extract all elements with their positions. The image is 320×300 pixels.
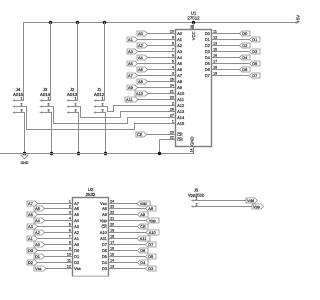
net label A11 (125, 97, 138, 102)
svg-text:A11: A11 (177, 97, 185, 102)
wire J3 pin3 to GND rail (50, 112, 52, 114)
svg-text:GND: GND (21, 161, 29, 165)
net label D4 (240, 55, 251, 60)
svg-text:A2: A2 (138, 43, 143, 48)
net label A6 (137, 67, 148, 72)
junction on GND rail at J3 pin3 (50, 152, 53, 155)
wire A6 to U2 pin 2 (45, 208, 73, 210)
net label D0 (240, 31, 251, 36)
svg-text:19: 19 (110, 228, 114, 232)
svg-text:A9: A9 (140, 212, 145, 217)
net label A8 (146, 206, 157, 211)
net label A8 (137, 79, 148, 84)
svg-text:18: 18 (213, 65, 217, 69)
wire U1 to net label D1 (212, 39, 250, 41)
net label A5 (127, 61, 138, 66)
wire A2 to U1 pin (148, 45, 176, 47)
net label A0 (137, 31, 148, 36)
net label A3 (127, 49, 138, 54)
wire A2 to U2 pin 6 (45, 232, 73, 234)
net label Vpp (146, 218, 159, 223)
wire U1 to net label D3 (212, 51, 250, 53)
wire U1 to net label D5 (212, 63, 250, 65)
net label A1 (27, 236, 38, 241)
svg-text:19: 19 (213, 71, 217, 75)
svg-text:A6: A6 (74, 206, 80, 211)
svg-text:D4: D4 (102, 260, 108, 265)
svg-text:Vpp: Vpp (100, 218, 108, 223)
svg-text:11: 11 (213, 29, 217, 33)
net label A10 (135, 91, 148, 96)
svg-text:D3: D3 (205, 49, 211, 54)
svg-text:A9: A9 (177, 85, 183, 90)
svg-text:2: 2 (75, 102, 77, 106)
wire Vss to U2 pin 12 (46, 268, 73, 270)
svg-text:A11: A11 (100, 236, 108, 241)
svg-text:D7: D7 (102, 242, 108, 247)
net label D5 (250, 61, 261, 66)
wire J4 pin2 to U1 A15 (23, 106, 27, 108)
svg-text:A8: A8 (138, 79, 143, 84)
wire U2 to net label D7 (109, 244, 147, 246)
svg-text:A0: A0 (177, 31, 183, 36)
wire J2 pin3 to GND rail (77, 112, 79, 114)
svg-text:A10: A10 (136, 91, 144, 96)
wire J2 pin2 to U1 A13 (77, 106, 81, 108)
svg-text:25: 25 (170, 77, 174, 81)
svg-text:4: 4 (69, 216, 71, 220)
svg-text:27: 27 (170, 113, 174, 117)
svg-text:A3: A3 (177, 49, 183, 54)
wire A4 to U1 pin (148, 57, 176, 59)
wire U2 to net label A11 (109, 238, 138, 240)
svg-text:A1: A1 (28, 236, 33, 241)
svg-text:9: 9 (69, 246, 71, 250)
svg-text:3: 3 (172, 71, 174, 75)
svg-text:D1: D1 (252, 37, 257, 42)
svg-text:A10: A10 (177, 91, 185, 96)
net label Vdd (J5) (246, 198, 258, 203)
svg-text:A1: A1 (128, 37, 133, 42)
svg-text:1: 1 (102, 96, 104, 100)
svg-text:D0: D0 (74, 248, 80, 253)
net label A5 (27, 212, 38, 217)
wire J1 pin2 to U1 A12 (104, 106, 108, 108)
net label A1 (127, 37, 138, 42)
svg-text:16: 16 (213, 53, 217, 57)
wire U2 to net label A10 (109, 232, 147, 234)
svg-text:3: 3 (21, 108, 23, 112)
svg-text:A9: A9 (128, 85, 133, 90)
svg-text:A0: A0 (35, 242, 41, 247)
svg-text:5: 5 (172, 59, 174, 63)
net label Vss (34, 266, 46, 271)
svg-text:A8: A8 (177, 79, 183, 84)
svg-text:13: 13 (110, 264, 114, 268)
wire U2 to net label D4 (109, 262, 138, 264)
svg-text:A8: A8 (148, 206, 153, 211)
wire A9 to U1 pin (138, 87, 176, 89)
net label D5 (146, 254, 157, 259)
svg-text:28: 28 (190, 25, 194, 29)
wire J4 pin3 to GND rail (23, 112, 25, 114)
svg-text:A15: A15 (177, 121, 185, 126)
wire A0 to U1 pin (148, 33, 176, 35)
svg-text:Vdd: Vdd (247, 198, 254, 203)
svg-text:A4: A4 (74, 218, 80, 223)
svg-text:D2: D2 (242, 43, 247, 48)
wire A8 to U1 pin (148, 81, 176, 83)
wire A5 to U1 pin (138, 63, 176, 65)
U1 pin 28 VCC stub (193, 23, 195, 30)
svg-text:5: 5 (69, 222, 71, 226)
wire U2 to net label D3 (109, 268, 147, 270)
svg-text:D3: D3 (148, 266, 153, 271)
wire OE to GND rail (159, 139, 176, 141)
svg-text:13: 13 (213, 41, 217, 45)
wire D2 to U2 pin 11 (38, 262, 73, 264)
svg-text:A5: A5 (128, 61, 133, 66)
junction on +5V rail at J2 pin1 (76, 21, 79, 24)
svg-text:D3: D3 (252, 49, 257, 54)
svg-text:2: 2 (172, 101, 174, 105)
svg-text:23: 23 (170, 95, 174, 99)
svg-text:D0: D0 (205, 31, 211, 36)
svg-text:3: 3 (102, 108, 104, 112)
net label D2 (27, 260, 38, 265)
net label CE (138, 224, 149, 229)
svg-text:A2: A2 (74, 230, 80, 235)
net label D3 (146, 266, 157, 271)
svg-text:A4: A4 (138, 55, 144, 60)
svg-text:A0: A0 (138, 31, 144, 36)
wire A5 to U2 pin 3 (38, 214, 73, 216)
svg-text:2: 2 (48, 102, 50, 106)
svg-text:D4: D4 (205, 55, 211, 60)
svg-text:20: 20 (170, 130, 174, 134)
svg-text:17: 17 (110, 240, 114, 244)
svg-text:3: 3 (75, 108, 77, 112)
svg-text:7: 7 (69, 234, 71, 238)
+5V power rail wire (23, 22, 298, 24)
wire U2 to net label D5 (109, 256, 147, 258)
svg-text:14: 14 (110, 258, 114, 262)
wire D0 to U2 pin 9 (38, 250, 73, 252)
svg-text:3: 3 (48, 108, 50, 112)
wire A11 to U1 pin (138, 99, 176, 101)
wire CE to U1 pin 20 (147, 134, 176, 136)
junction on GND rail at J2 pin3 (77, 152, 80, 155)
svg-text:A10: A10 (149, 230, 157, 235)
svg-text:GND: GND (190, 136, 195, 145)
wire A1 to U2 pin 7 (38, 238, 73, 240)
svg-text:A6: A6 (177, 67, 183, 72)
svg-text:A10: A10 (100, 230, 108, 235)
junction on GND rail at J1 pin3 (104, 152, 107, 155)
svg-text:D0: D0 (242, 31, 248, 36)
svg-text:A7: A7 (128, 73, 133, 78)
svg-text:16: 16 (110, 246, 114, 250)
wire A1 to U1 pin (138, 39, 176, 41)
svg-text:D7: D7 (252, 73, 257, 78)
svg-text:Vss: Vss (35, 266, 42, 271)
svg-text:6: 6 (69, 228, 71, 232)
svg-text:17: 17 (213, 59, 217, 63)
wire U1 to net label D0 (212, 33, 240, 35)
net label A4 (137, 55, 148, 60)
svg-text:Vss: Vss (74, 266, 81, 271)
svg-text:15: 15 (213, 47, 217, 51)
svg-text:A3: A3 (28, 224, 33, 229)
wire U2 to net label Vdd (109, 203, 138, 205)
junction on GND rail at J4 pin3 (23, 152, 26, 155)
svg-text:A7: A7 (28, 201, 33, 206)
svg-text:D5: D5 (102, 254, 108, 259)
svg-text:D2: D2 (74, 260, 80, 265)
wire U1 to net label D6 (212, 69, 240, 71)
svg-text:A3: A3 (128, 49, 133, 54)
svg-text:8: 8 (69, 240, 71, 244)
svg-text:A6: A6 (35, 206, 40, 211)
svg-text:D1: D1 (35, 254, 40, 259)
svg-text:D6: D6 (140, 248, 145, 253)
svg-text:18: 18 (110, 234, 114, 238)
net label A2 (34, 230, 45, 235)
svg-text:15: 15 (110, 252, 114, 256)
svg-text:2: 2 (21, 102, 23, 106)
EPROM U1 body (176, 30, 212, 147)
svg-text:1: 1 (21, 96, 23, 100)
svg-text:7: 7 (172, 47, 174, 51)
svg-text:8: 8 (172, 41, 174, 45)
wire U1 to net label D4 (212, 57, 240, 59)
svg-text:Vpp: Vpp (253, 204, 260, 209)
svg-text:D6: D6 (205, 67, 211, 72)
net label D1 (34, 254, 45, 259)
svg-text:D4: D4 (140, 260, 146, 265)
svg-text:22: 22 (170, 135, 174, 139)
wire A10 to U1 pin (148, 93, 176, 95)
svg-text:A2: A2 (35, 230, 40, 235)
net label A11 (137, 236, 150, 241)
svg-text:A12: A12 (177, 103, 185, 108)
svg-text:12: 12 (213, 35, 217, 39)
net label A6 (34, 206, 45, 211)
net label D6 (138, 248, 149, 253)
svg-text:3: 3 (69, 210, 71, 214)
svg-text:D5: D5 (148, 254, 153, 259)
wire J2 pin1 to +5V rail (77, 22, 79, 101)
wire U2 to net label A9 (109, 214, 138, 216)
net label CE (136, 132, 147, 137)
svg-text:2: 2 (69, 204, 71, 208)
svg-text:21: 21 (170, 89, 174, 93)
svg-text:J1: J1 (97, 87, 102, 92)
svg-text:10: 10 (170, 29, 174, 33)
wire A3 to U1 pin (138, 51, 176, 53)
wire U2 to net label CE (109, 226, 138, 228)
net label A9 (138, 212, 149, 217)
svg-text:D0: D0 (28, 248, 34, 253)
svg-text:D7: D7 (205, 73, 211, 78)
svg-text:1: 1 (75, 96, 77, 100)
svg-text:1: 1 (69, 199, 71, 203)
svg-text:A7: A7 (177, 73, 183, 78)
U1 pin 14 GND stub (193, 147, 195, 155)
svg-text:A11: A11 (140, 236, 147, 241)
svg-text:CE: CE (101, 224, 107, 229)
svg-text:1: 1 (48, 96, 50, 100)
wire A0 to U2 pin 8 (45, 244, 73, 246)
svg-text:A5: A5 (28, 212, 33, 217)
svg-text:A11: A11 (126, 97, 133, 102)
net label D6 (240, 67, 251, 72)
net label A7 (27, 201, 38, 206)
svg-text:22: 22 (110, 210, 114, 214)
ground symbol GND (21, 155, 28, 159)
svg-text:24: 24 (170, 83, 174, 87)
wire A6 to U1 pin (148, 69, 176, 71)
wire J1 pin1 to +5V rail (104, 22, 106, 101)
net label A9 (127, 85, 138, 90)
svg-text:A9: A9 (102, 212, 108, 217)
svg-text:D2: D2 (205, 43, 211, 48)
svg-text:14: 14 (190, 149, 194, 153)
junction on +5V rail at U1 VCC (192, 21, 195, 24)
svg-text:OE: OE (177, 137, 183, 142)
svg-text:24: 24 (110, 199, 114, 203)
wire A4 to U2 pin 4 (45, 220, 73, 222)
svg-text:11: 11 (67, 258, 71, 262)
svg-text:D6: D6 (242, 67, 247, 72)
svg-text:D6: D6 (102, 248, 108, 253)
svg-text:26: 26 (170, 107, 174, 111)
wire J5 pin2 to net label Vpp (199, 206, 253, 208)
svg-text:6: 6 (172, 53, 174, 57)
svg-text:9: 9 (172, 35, 174, 39)
wire J4 pin1 to +5V rail (23, 22, 25, 101)
svg-text:A0: A0 (74, 242, 80, 247)
svg-text:20: 20 (110, 222, 114, 226)
svg-text:A14: A14 (177, 115, 185, 120)
junction on +5V rail at J3 pin1 (49, 21, 52, 24)
svg-text:A1: A1 (74, 236, 80, 241)
wire U1 to net label D7 (212, 75, 250, 77)
svg-text:D5: D5 (205, 61, 211, 66)
wire J3 pin2 to U1 A14 (50, 106, 54, 108)
wire U2 to net label Vpp (109, 220, 147, 222)
svg-text:D5: D5 (252, 61, 257, 66)
svg-text:J2: J2 (70, 87, 75, 92)
wire U2 to net label D6 (109, 250, 138, 252)
net label A10 (146, 230, 159, 235)
wire A3 to U2 pin 5 (38, 226, 73, 228)
net label Vdd (137, 201, 150, 206)
wire U1 to net label D2 (212, 45, 240, 47)
svg-text:27512: 27512 (187, 15, 200, 20)
net label D4 (138, 260, 149, 265)
svg-text:Vpp: Vpp (149, 218, 156, 223)
svg-text:A2: A2 (177, 43, 183, 48)
svg-text:A1: A1 (177, 37, 183, 42)
svg-text:A3: A3 (74, 224, 80, 229)
svg-text:1: 1 (172, 119, 174, 123)
GND rail wire (0, 153, 194, 155)
svg-text:10: 10 (67, 252, 71, 256)
svg-text:J3: J3 (43, 87, 48, 92)
svg-text:4: 4 (172, 65, 174, 69)
svg-text:D2: D2 (28, 260, 33, 265)
wire J5 pin1 to net label Vdd (199, 200, 247, 202)
svg-text:Vdd: Vdd (140, 201, 147, 206)
net label A4 (34, 218, 45, 223)
junction on GND rail at OE wire (158, 152, 161, 155)
wire D1 to U2 pin 10 (45, 256, 73, 258)
net label D2 (240, 43, 251, 48)
svg-text:D3: D3 (102, 266, 108, 271)
net label D1 (250, 37, 261, 42)
net label A0 (34, 242, 45, 247)
svg-text:D1: D1 (74, 254, 80, 259)
net label D3 (250, 49, 261, 54)
svg-text:A13: A13 (177, 109, 185, 114)
svg-text:A5: A5 (74, 212, 80, 217)
svg-text:A8: A8 (102, 206, 108, 211)
svg-text:D7: D7 (148, 242, 153, 247)
svg-text:A5: A5 (177, 61, 183, 66)
svg-text:1: 1 (196, 196, 198, 200)
net label D0 (27, 248, 38, 253)
svg-text:21: 21 (110, 216, 114, 220)
svg-text:D1: D1 (205, 37, 211, 42)
net label Vpp (J5) (252, 204, 264, 209)
svg-text:A6: A6 (138, 67, 143, 72)
svg-text:23: 23 (110, 204, 114, 208)
svg-text:2532: 2532 (86, 192, 96, 197)
svg-text:J4: J4 (16, 87, 21, 92)
wire U2 to net label A8 (109, 208, 147, 210)
junction on +5V rail at J1 pin1 (103, 21, 106, 24)
net label A7 (127, 73, 138, 78)
net label D7 (146, 242, 157, 247)
wire J3 pin1 to +5V rail (50, 22, 52, 101)
svg-text:2: 2 (196, 202, 198, 206)
svg-text:2: 2 (102, 102, 104, 106)
svg-text:A4: A4 (35, 218, 41, 223)
svg-text:A4: A4 (177, 55, 183, 60)
svg-text:12: 12 (67, 264, 71, 268)
net label D7 (250, 73, 261, 78)
svg-text:VCC: VCC (191, 31, 196, 40)
EPROM U2 body (73, 198, 109, 277)
svg-text:D4: D4 (242, 55, 248, 60)
wire A7 to U1 pin (138, 75, 176, 77)
net label A2 (137, 43, 148, 48)
net label A3 (27, 224, 38, 229)
wire A7 to U2 pin 1 (38, 203, 73, 205)
wire J1 pin3 to GND rail (104, 112, 106, 114)
